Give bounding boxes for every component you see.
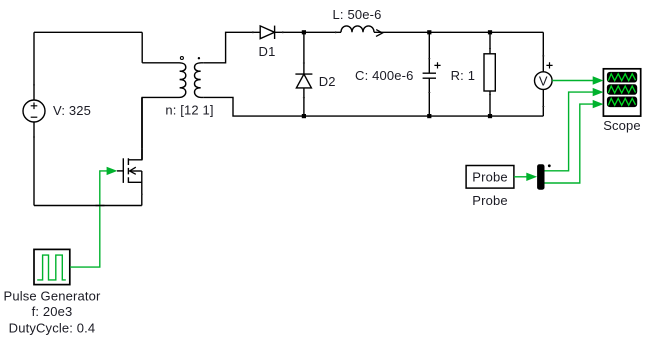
resistor R1 lower wire	[489, 91, 491, 116]
wire secondary bottom	[204, 97, 304, 116]
scope screen 3	[607, 97, 637, 108]
scope screen 2 waveform	[608, 86, 635, 93]
resistor R1 upper wire	[489, 32, 491, 54]
resistor R1 body	[484, 54, 495, 91]
voltage sensor upper wire	[542, 32, 544, 72]
svg-text:DutyCycle: 0.4: DutyCycle: 0.4	[9, 321, 96, 336]
mosfet Q1 gate bar	[122, 158, 124, 183]
mosfet Q1 source lead	[128, 171, 141, 206]
arrowhead scope in 2	[593, 88, 604, 96]
voltage sensor plus sign	[546, 62, 552, 68]
arrowhead scope in 1	[593, 76, 604, 84]
mux bar	[537, 164, 544, 190]
diode D2 vertical wire upper	[303, 32, 305, 74]
diode D1 triangle	[260, 26, 274, 39]
diode D1 cathode bar	[274, 26, 276, 39]
voltage source minus sign	[31, 116, 38, 118]
junction dot R bottom	[488, 114, 492, 118]
transformer primary winding	[177, 63, 186, 98]
junction dot R top	[488, 30, 492, 34]
voltage source V1 circle	[23, 100, 45, 122]
transformer secondary dot	[198, 57, 200, 59]
svg-text:f: 20e3: f: 20e3	[32, 304, 73, 319]
arrowhead gate	[107, 167, 118, 175]
wire source bottom vertical	[33, 122, 35, 206]
wire primary winding bottom to drain	[142, 97, 176, 159]
inductor current arrow	[376, 30, 382, 37]
inductor L1 winding	[341, 26, 374, 32]
pulse generator icon wave	[37, 255, 66, 280]
diode D2 triangle	[296, 74, 311, 88]
junction dot D2 bottom	[302, 114, 306, 118]
probe block	[466, 166, 514, 189]
wire sensor to scope	[552, 80, 595, 82]
mosfet Q1 body arrowhead	[130, 167, 136, 174]
transformer secondary winding	[195, 63, 204, 98]
svg-text:R: 1: R: 1	[451, 68, 475, 83]
mux annotation dot	[548, 164, 551, 167]
capacitor C1 lower wire	[428, 78, 430, 116]
arrowhead probe to mux	[526, 173, 537, 181]
capacitor C1 plates	[423, 73, 436, 78]
svg-text:n: [12 1]: n: [12 1]	[165, 102, 213, 117]
wire top rail junction to inductor	[304, 31, 341, 33]
mosfet Q1 channel segments	[127, 158, 129, 183]
voltage sensor lower wire	[542, 89, 544, 116]
wire pulse generator output	[70, 171, 108, 267]
svg-text:Scope: Scope	[603, 118, 641, 133]
junction dot C top	[427, 30, 431, 34]
pulse generator block	[34, 249, 70, 284]
capacitor C1 upper wire	[428, 32, 430, 73]
wire source top vertical	[33, 32, 35, 100]
svg-text:C: 400e-6: C: 400e-6	[355, 68, 413, 83]
svg-text:L: 50e-6: L: 50e-6	[333, 7, 382, 22]
scope screen 1 waveform	[608, 74, 635, 81]
wire primary top drop	[141, 32, 143, 63]
wire probe to mux	[514, 176, 529, 178]
mosfet gate stub	[117, 170, 123, 172]
voltage source plus sign	[31, 103, 38, 110]
diode D2 cathode bar	[295, 73, 312, 75]
voltage sensor circle	[535, 72, 553, 90]
wire inductor to sensor corner	[374, 31, 543, 33]
scope screen 3 waveform	[608, 98, 635, 105]
arrowhead scope in 3	[593, 100, 604, 108]
junction dot D1-D2 top	[302, 30, 306, 34]
wire D1 to junction	[275, 31, 304, 33]
wire secondary top	[204, 32, 260, 63]
wire mux out 1	[545, 92, 596, 171]
capacitor plus sign	[434, 62, 440, 68]
scope screen 1	[607, 72, 637, 83]
junction dot C bottom	[427, 114, 431, 118]
scope block frame	[603, 69, 640, 116]
mosfet Q1 drain lead	[128, 97, 141, 159]
transformer primary dot	[180, 57, 183, 60]
scope screen 2	[607, 84, 637, 95]
svg-text:D2: D2	[319, 74, 336, 89]
wire bottom return	[34, 205, 142, 207]
wire crossing patch (black over green)	[96, 205, 105, 207]
svg-text:D1: D1	[259, 44, 276, 59]
svg-text:Pulse Generator: Pulse Generator	[4, 289, 101, 304]
svg-text:V: V	[539, 73, 548, 88]
wire to primary winding top	[142, 62, 176, 64]
svg-text:Probe: Probe	[472, 193, 507, 208]
wire top horizontal	[34, 31, 142, 33]
wire mux out 2	[545, 104, 596, 183]
bottom rail	[304, 115, 543, 117]
port tick marks	[33, 31, 544, 194]
mosfet Q1 body arrow line	[130, 170, 142, 172]
svg-text:V: 325: V: 325	[53, 103, 91, 118]
diode D2 vertical wire lower	[303, 88, 305, 116]
svg-text:Probe: Probe	[472, 169, 507, 184]
